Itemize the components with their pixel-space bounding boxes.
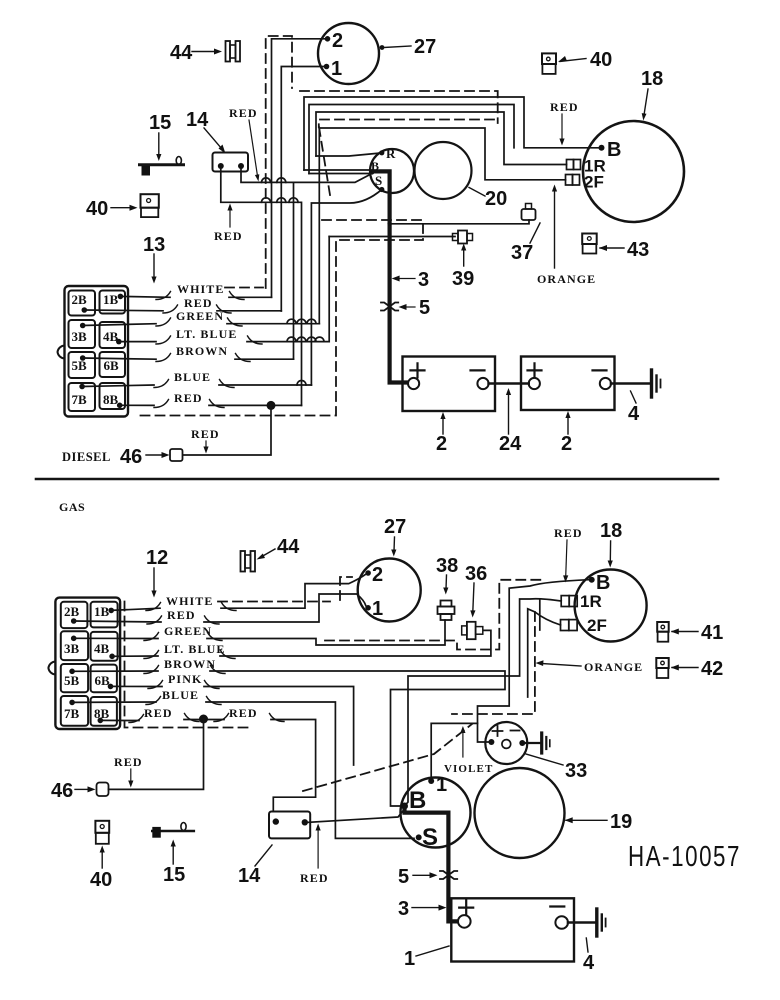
key switch 21 bbox=[369, 146, 414, 193]
svg-text:RED: RED bbox=[554, 526, 583, 540]
wire 14 right to starter B bbox=[308, 809, 405, 822]
svg-text:1B: 1B bbox=[103, 292, 119, 307]
sender 40 (diesel left) bbox=[86, 194, 159, 220]
svg-text:B: B bbox=[409, 787, 426, 814]
label RED (top of 14) bbox=[229, 106, 259, 182]
svg-text:BLUE: BLUE bbox=[162, 688, 199, 702]
sender 41 bbox=[657, 622, 723, 644]
sender 42 bbox=[656, 658, 723, 680]
svg-text:1: 1 bbox=[404, 948, 415, 970]
svg-text:20: 20 bbox=[485, 188, 507, 210]
battery cable thick (gas) bbox=[405, 806, 458, 921]
gauge 27 (diesel) bbox=[318, 23, 436, 84]
svg-text:1: 1 bbox=[436, 774, 447, 796]
fuse link 5 on cable bbox=[381, 297, 430, 319]
svg-text:41: 41 bbox=[701, 622, 723, 644]
wire GREEN row bbox=[83, 324, 320, 326]
fuse link 5 (gas) bbox=[398, 866, 457, 888]
key 15 (gas) bbox=[152, 823, 194, 887]
svg-text:B: B bbox=[607, 139, 621, 161]
svg-text:27: 27 bbox=[384, 516, 406, 538]
wire junction to connector 46 (gas) bbox=[109, 719, 204, 789]
svg-text:19: 19 bbox=[610, 811, 632, 833]
key 15 (diesel) bbox=[140, 112, 184, 176]
svg-text:24: 24 bbox=[499, 433, 522, 455]
wire to switch 37 bbox=[390, 220, 529, 224]
svg-text:40: 40 bbox=[90, 869, 112, 891]
label RED (gas generator) bbox=[554, 526, 583, 583]
harness dash outline (diesel top) bbox=[136, 36, 498, 416]
svg-text:LT. BLUE: LT. BLUE bbox=[176, 327, 238, 341]
svg-text:2: 2 bbox=[332, 30, 343, 52]
label 13 bbox=[143, 234, 165, 284]
svg-text:5B: 5B bbox=[64, 673, 80, 688]
svg-text:2: 2 bbox=[436, 433, 447, 455]
wire R to key switch bbox=[316, 153, 379, 156]
svg-text:DIESEL: DIESEL bbox=[62, 450, 111, 464]
svg-text:2F: 2F bbox=[584, 173, 604, 192]
svg-text:2: 2 bbox=[372, 564, 383, 586]
svg-text:37: 37 bbox=[511, 242, 533, 264]
svg-text:B: B bbox=[596, 572, 610, 594]
svg-text:VIOLET: VIOLET bbox=[444, 763, 493, 775]
svg-text:BROWN: BROWN bbox=[164, 657, 216, 671]
wire BROWN row bbox=[83, 358, 294, 359]
fuse holder 38 bbox=[436, 555, 458, 620]
svg-text:R: R bbox=[386, 146, 396, 161]
svg-text:14: 14 bbox=[238, 865, 261, 887]
connector block 13 (diesel) bbox=[58, 286, 129, 417]
label RED (generator) bbox=[550, 100, 579, 146]
hump crossings on 182 wire bbox=[262, 178, 271, 183]
svg-text:1: 1 bbox=[372, 598, 383, 620]
wire gas generator 2F bbox=[528, 609, 561, 697]
svg-text:4: 4 bbox=[583, 952, 595, 974]
svg-text:HA-10057: HA-10057 bbox=[628, 841, 741, 873]
svg-text:39: 39 bbox=[452, 268, 474, 290]
svg-text:GREEN: GREEN bbox=[164, 624, 212, 638]
humps on 202 wire bbox=[262, 198, 271, 203]
sender 40 (gas) bbox=[90, 821, 112, 891]
svg-text:40: 40 bbox=[86, 198, 108, 220]
resistor 14 (diesel) bbox=[186, 109, 248, 172]
svg-text:RED: RED bbox=[191, 427, 220, 441]
wire pin1 to RED row bbox=[281, 67, 323, 312]
label RED (below 14) bbox=[214, 204, 243, 244]
svg-text:BROWN: BROWN bbox=[176, 344, 228, 358]
svg-text:33: 33 bbox=[565, 760, 587, 782]
svg-text:14: 14 bbox=[186, 109, 209, 131]
svg-text:38: 38 bbox=[436, 555, 458, 577]
battery 2 (left) bbox=[403, 357, 496, 456]
svg-text:46: 46 bbox=[51, 780, 73, 802]
label VIOLET bbox=[444, 726, 493, 775]
label ORANGE (diesel) bbox=[537, 185, 596, 287]
wire LT. BLUE row (gas) to 36 bbox=[112, 630, 491, 656]
svg-text:GREEN: GREEN bbox=[176, 309, 224, 323]
svg-text:3: 3 bbox=[418, 269, 429, 291]
wire PINK row (gas) bbox=[111, 686, 354, 765]
wire junction to connector 46 bbox=[183, 405, 271, 455]
svg-text:WHITE: WHITE bbox=[177, 282, 225, 296]
label RED (gas 14) bbox=[300, 824, 329, 886]
connector 39 bbox=[452, 231, 474, 291]
junction stub on 1R wire bbox=[539, 600, 541, 630]
label RED (above 46 gas) bbox=[114, 755, 143, 788]
svg-text:2: 2 bbox=[561, 433, 572, 455]
svg-text:4: 4 bbox=[628, 403, 640, 425]
connector block 12 (gas) bbox=[48, 598, 120, 729]
svg-text:2B: 2B bbox=[72, 292, 88, 307]
svg-text:8B: 8B bbox=[103, 392, 119, 407]
harness dash outline (gas) bbox=[125, 577, 542, 791]
svg-text:12: 12 bbox=[146, 547, 168, 569]
svg-text:3B: 3B bbox=[64, 641, 80, 656]
wire GREEN riser to 2F harness bbox=[318, 128, 320, 324]
wire gas generator B bbox=[478, 580, 590, 742]
distributor 19 bbox=[475, 768, 633, 858]
svg-text:ORANGE: ORANGE bbox=[584, 660, 643, 674]
wire VIOLET starter 1 to ammeter bbox=[431, 723, 477, 779]
relay 14 (gas) bbox=[238, 812, 310, 888]
junction node on RED 8B wire bbox=[267, 401, 276, 410]
svg-text:7B: 7B bbox=[64, 706, 80, 721]
wire WHITE row (gas) to pin 2 bbox=[111, 574, 366, 610]
svg-text:2F: 2F bbox=[587, 616, 607, 635]
svg-text:1R: 1R bbox=[580, 592, 602, 611]
svg-text:36: 36 bbox=[465, 563, 487, 585]
svg-text:WHITE: WHITE bbox=[166, 594, 214, 608]
wire BLUE row bbox=[82, 385, 311, 387]
label 12 bbox=[146, 547, 168, 598]
ammeter 33 bbox=[485, 722, 527, 764]
junction node RED gas bbox=[199, 715, 208, 724]
battery cable 3 (thick) bbox=[374, 171, 407, 382]
svg-text:2B: 2B bbox=[64, 604, 80, 619]
wire to connector 39 bbox=[329, 236, 455, 238]
connector 46 (diesel) bbox=[62, 446, 183, 468]
label 3 bbox=[392, 269, 430, 291]
wire BLUE row (gas) to starter S bbox=[72, 702, 414, 838]
switch 37 bbox=[511, 204, 540, 265]
svg-text:LT. BLUE: LT. BLUE bbox=[164, 642, 226, 656]
svg-text:44: 44 bbox=[170, 42, 193, 64]
svg-text:13: 13 bbox=[143, 234, 165, 256]
svg-text:18: 18 bbox=[600, 520, 622, 542]
svg-text:5: 5 bbox=[419, 297, 430, 319]
wire 14 left terminal to 8B RED row bbox=[221, 169, 302, 405]
svg-text:42: 42 bbox=[701, 658, 723, 680]
svg-text:6B: 6B bbox=[104, 358, 120, 373]
svg-text:7B: 7B bbox=[72, 392, 88, 407]
wire pin2 to WHITE row bbox=[272, 39, 325, 298]
wire BROWN branch from 182 wire bbox=[293, 182, 295, 359]
wire WHITE row bbox=[120, 295, 271, 298]
wire key S to BLUE row bbox=[311, 190, 381, 386]
wire RED row (8B) bbox=[120, 404, 302, 406]
ground 4 (diesel) bbox=[611, 370, 661, 425]
svg-text:27: 27 bbox=[414, 36, 436, 58]
ignition circle 20 bbox=[415, 142, 508, 210]
wire GREEN row (gas) to 38 bbox=[74, 620, 445, 645]
svg-text:6B: 6B bbox=[95, 673, 111, 688]
wire key B band bbox=[304, 170, 372, 174]
link wire 24 bbox=[489, 382, 529, 385]
svg-text:RED: RED bbox=[167, 608, 196, 622]
wire gas generator 1R bbox=[405, 599, 562, 806]
svg-text:1: 1 bbox=[331, 58, 342, 80]
wire RED row (gas) to pin 1 bbox=[74, 594, 366, 622]
svg-text:RED: RED bbox=[550, 100, 579, 114]
svg-text:RED: RED bbox=[229, 706, 258, 720]
svg-text:PINK: PINK bbox=[168, 672, 202, 686]
connector 44 (gas) bbox=[241, 536, 301, 572]
connector 46 (gas) bbox=[51, 780, 109, 802]
svg-text:RED: RED bbox=[184, 296, 213, 310]
battery 1 (gas) bbox=[404, 898, 574, 970]
svg-text:3B: 3B bbox=[72, 329, 88, 344]
svg-text:40: 40 bbox=[590, 49, 612, 71]
label 3 (gas) bbox=[398, 898, 447, 920]
divider line bbox=[36, 478, 718, 481]
sender 40 (diesel top) bbox=[542, 49, 612, 74]
svg-text:4B: 4B bbox=[94, 641, 110, 656]
svg-text:46: 46 bbox=[120, 446, 142, 468]
wire LT. BLUE row bbox=[119, 237, 329, 342]
generator 18 (gas) bbox=[561, 520, 647, 642]
svg-text:RED: RED bbox=[229, 106, 258, 120]
wire RED row bbox=[84, 309, 281, 312]
pin dots block 12 bbox=[69, 608, 115, 724]
distributor 27 (gas) bbox=[358, 516, 421, 622]
svg-text:5: 5 bbox=[398, 866, 409, 888]
svg-text:RED: RED bbox=[174, 391, 203, 405]
wire BROWN row (gas) to starter B bbox=[72, 671, 505, 806]
svg-text:43: 43 bbox=[627, 239, 649, 261]
svg-text:ORANGE: ORANGE bbox=[537, 272, 596, 286]
label RED (above 46) bbox=[191, 427, 220, 454]
wire RED row 8B (gas) bbox=[100, 720, 315, 812]
wire 14 right terminal to key switch B bbox=[241, 169, 370, 182]
label ORANGE (gas) bbox=[536, 660, 644, 674]
generator 18 (diesel) bbox=[566, 68, 685, 222]
svg-text:RED: RED bbox=[214, 229, 243, 243]
svg-text:RED: RED bbox=[144, 706, 173, 720]
svg-text:1B: 1B bbox=[94, 604, 110, 619]
svg-text:S: S bbox=[375, 173, 383, 188]
svg-text:44: 44 bbox=[277, 536, 300, 558]
ground at ammeter 33 bbox=[525, 733, 587, 782]
svg-text:BLUE: BLUE bbox=[174, 370, 211, 384]
wire generator 2F bbox=[319, 128, 565, 180]
svg-text:15: 15 bbox=[149, 112, 171, 134]
ground 4 (gas) bbox=[568, 909, 606, 974]
svg-text:S: S bbox=[422, 824, 438, 851]
wire generator 1R bbox=[309, 105, 567, 174]
svg-text:RED: RED bbox=[114, 755, 143, 769]
svg-text:GAS: GAS bbox=[59, 500, 85, 514]
battery 2 (right) bbox=[521, 357, 615, 456]
svg-text:18: 18 bbox=[641, 68, 663, 90]
svg-text:3: 3 bbox=[398, 898, 409, 920]
wire generator B bbox=[304, 97, 599, 170]
svg-text:5B: 5B bbox=[72, 358, 88, 373]
sender 43 bbox=[582, 234, 649, 262]
svg-text:15: 15 bbox=[163, 864, 185, 886]
connector 44 (diesel) bbox=[170, 41, 240, 64]
starter solenoid B/S bbox=[401, 774, 471, 851]
connector 36 bbox=[462, 563, 488, 639]
svg-text:RED: RED bbox=[300, 871, 329, 885]
pin dots block 13 bbox=[79, 294, 123, 409]
